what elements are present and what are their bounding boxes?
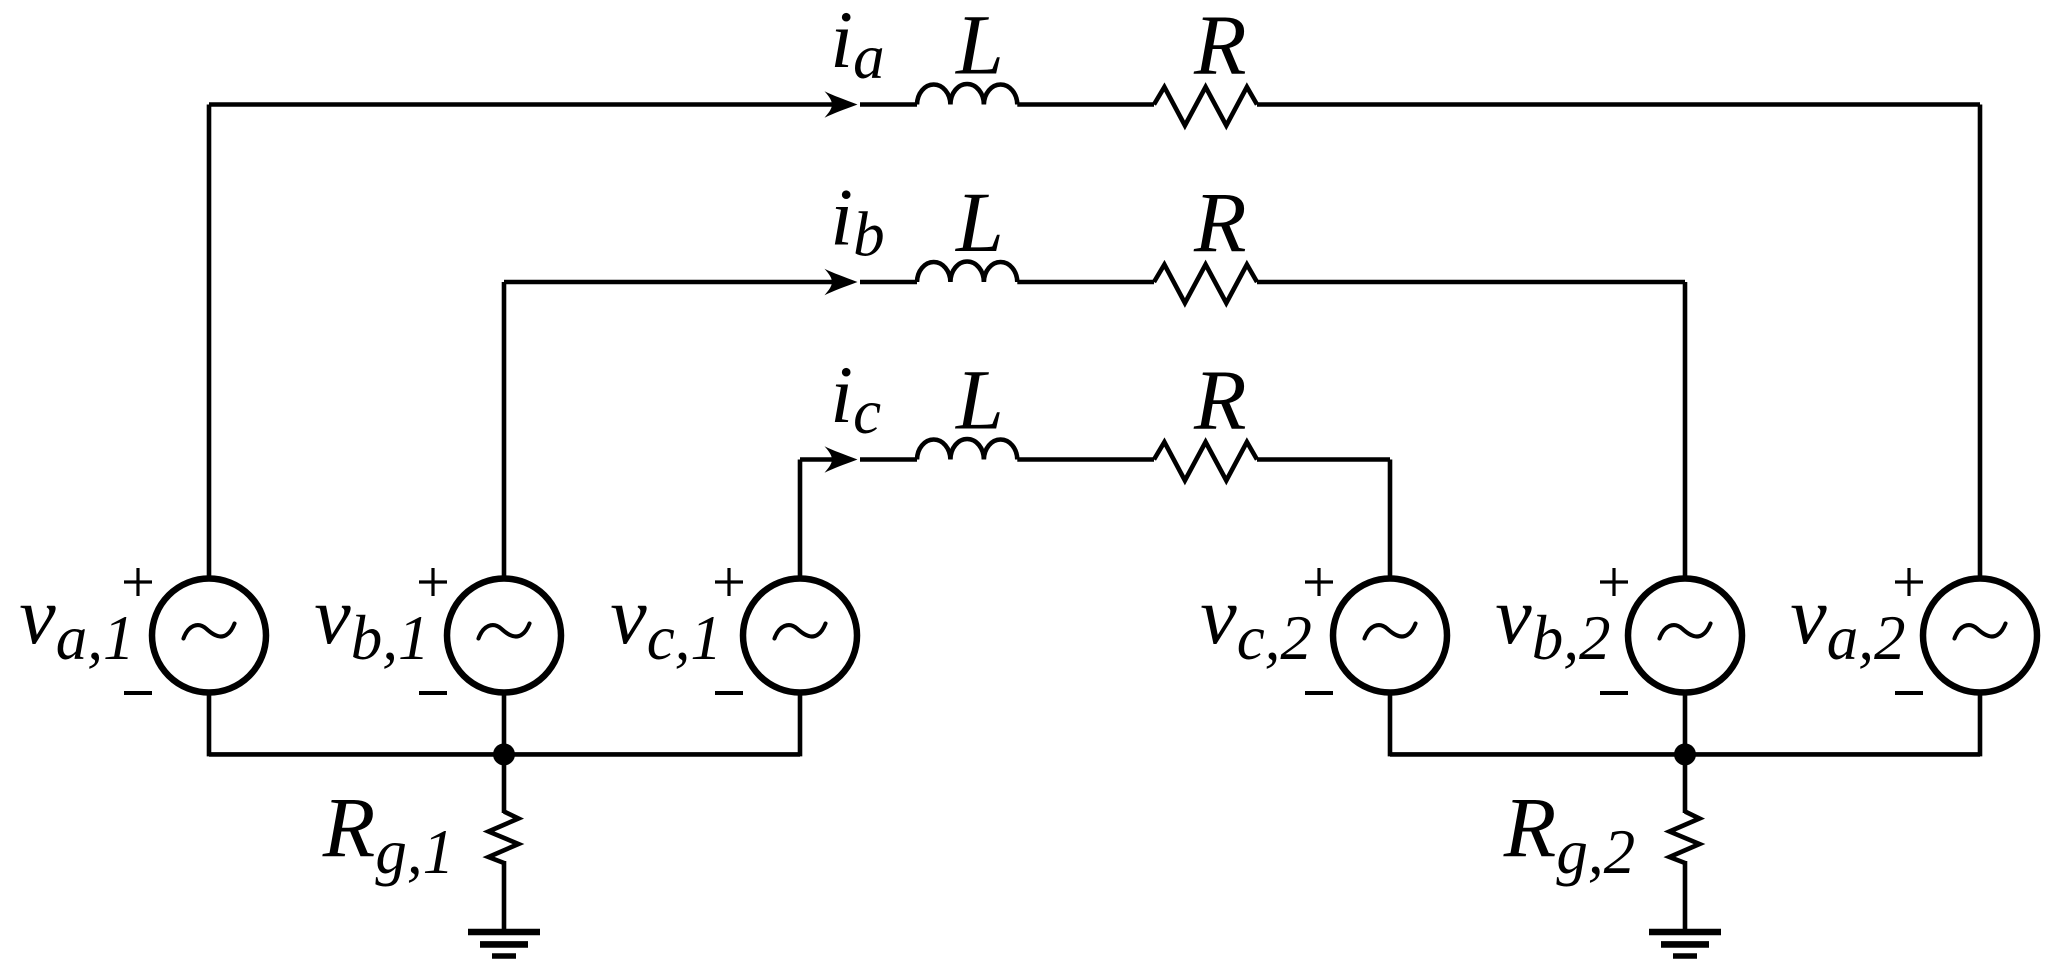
minus terminal of v_a,1: [124, 691, 152, 695]
svg-text:vb,1: vb,1: [314, 570, 429, 673]
wire left neutral bus: [209, 752, 800, 757]
inductor L phase b: [917, 262, 1017, 283]
svg-text:Rg,1: Rg,1: [322, 779, 454, 887]
wire vertical drop at x=1685.0 top: [1683, 282, 1688, 577]
junction node at x=504.0: [493, 743, 515, 765]
AC source v_b,2: [1628, 579, 1742, 693]
ground symbol below R_g,1: [468, 929, 540, 936]
wire vertical drop at x=1390.0 bottom stub: [1388, 694, 1393, 757]
current arrow i_a: [825, 91, 858, 117]
resistor R phase a: [1154, 87, 1257, 126]
plus terminal of v_c,1: [715, 580, 743, 583]
wire right neutral bus: [1390, 752, 1980, 757]
wire vertical drop at x=209.0 bottom stub: [207, 694, 212, 757]
AC source v_b,1: [447, 579, 561, 693]
minus terminal of v_b,1: [419, 691, 447, 695]
minus terminal of v_c,2: [1305, 691, 1333, 695]
wire vertical drop at x=1980.0 bottom stub: [1978, 694, 1983, 757]
wire phase a between L and R: [1017, 102, 1154, 107]
ground symbol below R_g,2: [1649, 929, 1721, 936]
svg-text:R: R: [1193, 174, 1247, 270]
junction node at x=1685.0: [1674, 743, 1696, 765]
AC source v_a,2: [1923, 579, 2037, 693]
resistor R_g,2: [1670, 812, 1700, 864]
wire resistor R_g,1 to ground: [502, 861, 507, 929]
current arrow i_b: [825, 269, 858, 295]
svg-text:L: L: [954, 174, 1004, 270]
AC source v_a,1: [152, 579, 266, 693]
wire vertical drop at x=504.0 bottom stub: [502, 694, 507, 757]
wire resistor R_g,2 to ground: [1683, 861, 1688, 929]
wire phase c left segment: [800, 457, 833, 462]
inductor L phase c: [917, 439, 1017, 460]
wire vertical drop at x=504.0 top: [502, 282, 507, 577]
svg-text:ic: ic: [830, 349, 881, 447]
svg-text:vb,2: vb,2: [1495, 570, 1610, 673]
svg-text:ib: ib: [830, 171, 884, 269]
svg-text:va,1: va,1: [19, 570, 134, 673]
wire phase b right segment: [1257, 280, 1685, 285]
wire vertical drop at x=800.0 bottom stub: [798, 694, 803, 757]
plus terminal of v_a,2: [1895, 580, 1923, 583]
wire phase a after arrow: [860, 102, 917, 107]
wire phase c right segment: [1257, 457, 1390, 462]
svg-text:vc,2: vc,2: [1200, 570, 1312, 673]
minus terminal of v_b,2: [1600, 691, 1628, 695]
wire phase a left segment: [209, 102, 833, 107]
wire phase b after arrow: [860, 280, 917, 285]
resistor R_g,1: [489, 812, 519, 864]
plus terminal of v_b,2: [1600, 580, 1628, 583]
wire vertical drop at x=1685.0 bottom stub: [1683, 694, 1688, 757]
svg-text:L: L: [954, 351, 1004, 447]
svg-text:va,2: va,2: [1790, 570, 1905, 673]
wire phase c between L and R: [1017, 457, 1154, 462]
minus terminal of v_a,2: [1895, 691, 1923, 695]
wire junction to resistor R_g,2: [1683, 754, 1688, 813]
wire phase c after arrow: [860, 457, 917, 462]
wire phase b left segment: [504, 280, 833, 285]
minus terminal of v_c,1: [715, 691, 743, 695]
wire vertical drop at x=800.0 top: [798, 460, 803, 578]
svg-text:R: R: [1193, 0, 1247, 92]
svg-text:Rg,2: Rg,2: [1503, 779, 1635, 887]
resistor R phase b: [1154, 265, 1257, 304]
current arrow i_c: [825, 446, 858, 472]
AC source v_c,2: [1333, 579, 1447, 693]
wire vertical drop at x=1980.0 top: [1978, 105, 1983, 578]
wire vertical drop at x=209.0 top: [207, 105, 212, 578]
svg-text:ia: ia: [830, 0, 884, 92]
wire phase a right segment: [1257, 102, 1980, 107]
svg-text:vc,1: vc,1: [610, 570, 722, 673]
plus terminal of v_c,2: [1305, 580, 1333, 583]
svg-text:L: L: [954, 0, 1004, 92]
AC source v_c,1: [743, 579, 857, 693]
resistor R phase c: [1154, 442, 1257, 481]
plus terminal of v_b,1: [419, 580, 447, 583]
svg-text:R: R: [1193, 351, 1247, 447]
wire junction to resistor R_g,1: [502, 754, 507, 813]
wire vertical drop at x=1390.0 top: [1388, 460, 1393, 578]
inductor L phase a: [917, 84, 1017, 105]
plus terminal of v_a,1: [124, 580, 152, 583]
wire phase b between L and R: [1017, 280, 1154, 285]
